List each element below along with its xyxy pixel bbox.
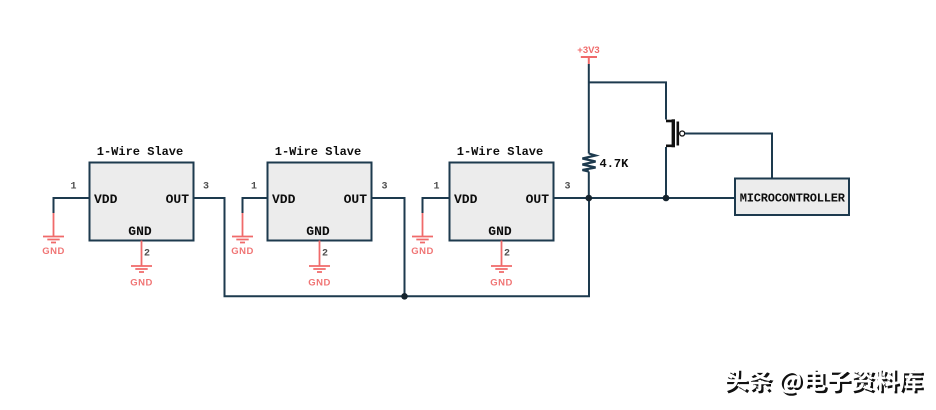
wire U1 OUT to 1-wire bus (194, 198, 590, 296)
wire transistor source to bus node (665, 147, 667, 198)
svg-text:OUT: OUT (344, 192, 368, 207)
1-Wire Slave 1 body (90, 163, 194, 241)
svg-text:1-Wire Slave: 1-Wire Slave (97, 145, 183, 159)
svg-text:2: 2 (504, 249, 510, 260)
1-Wire Slave 2 body (268, 163, 372, 241)
svg-text:OUT: OUT (166, 192, 190, 207)
U1 pin 1 wire (54, 198, 90, 213)
wire +3V3 branch to transistor drain (589, 82, 666, 119)
svg-text:GND: GND (128, 224, 152, 239)
svg-text:1-Wire Slave: 1-Wire Slave (457, 145, 543, 159)
svg-text:VDD: VDD (454, 192, 478, 207)
svg-text:GND: GND (488, 224, 512, 239)
svg-text:OUT: OUT (526, 192, 550, 207)
svg-text:+3V3: +3V3 (577, 45, 599, 56)
svg-text:GND: GND (308, 278, 331, 289)
svg-text:3: 3 (381, 182, 387, 193)
svg-text:1: 1 (70, 182, 76, 193)
svg-text:2: 2 (144, 249, 150, 260)
junction transistor source (663, 195, 670, 202)
wire U3 OUT to node (554, 197, 589, 199)
1-Wire Slave 3 body (450, 163, 554, 241)
junction node 1-wire data (586, 195, 593, 202)
svg-text:VDD: VDD (272, 192, 296, 207)
svg-text:2: 2 (322, 249, 328, 260)
ground GND at U2 VDD (242, 213, 244, 237)
U2 pin 1 wire (243, 198, 268, 213)
junction on bus (401, 293, 408, 300)
MICROCONTROLLER box (735, 179, 849, 216)
watermark shadow 头条@电子资料库 (727, 371, 924, 396)
svg-text:3: 3 (203, 182, 209, 193)
watermark text 头条@电子资料库 (725, 368, 922, 393)
U3 pin 1 wire (423, 198, 450, 213)
svg-text:GND: GND (130, 278, 153, 289)
wire node to microcontroller (589, 197, 735, 199)
wire resistor to node (588, 172, 590, 199)
svg-text:MICROCONTROLLER: MICROCONTROLLER (740, 191, 846, 205)
svg-text:GND: GND (411, 246, 434, 257)
svg-text:1-Wire Slave: 1-Wire Slave (275, 145, 361, 159)
svg-text:1: 1 (433, 182, 439, 193)
ground GND at U1 GND pin (131, 266, 152, 272)
U3 pin 2 wire (501, 241, 503, 267)
wire transistor gate to microcontroller (685, 134, 772, 179)
svg-text:GND: GND (306, 224, 330, 239)
svg-text:GND: GND (231, 246, 254, 257)
ground GND at U1 VDD (53, 213, 55, 237)
U1 pin 2 wire (141, 241, 143, 267)
resistor R1 zigzag (582, 154, 595, 172)
U2 pin 2 wire (319, 241, 321, 267)
svg-text:VDD: VDD (94, 192, 118, 207)
ground GND at U3 VDD (422, 213, 424, 237)
svg-text:GND: GND (42, 246, 65, 257)
wire U2 OUT down to bus (372, 198, 405, 296)
svg-text:GND: GND (490, 278, 513, 289)
ground GND at U2 GND pin (309, 266, 330, 272)
svg-text:1: 1 (251, 182, 257, 193)
transistor Q1 MOSFET (666, 119, 685, 147)
ground GND at U3 GND pin (491, 266, 512, 272)
wire +3V3 down to resistor (588, 64, 590, 154)
svg-text:4.7K: 4.7K (600, 157, 630, 171)
svg-text:3: 3 (564, 182, 570, 193)
